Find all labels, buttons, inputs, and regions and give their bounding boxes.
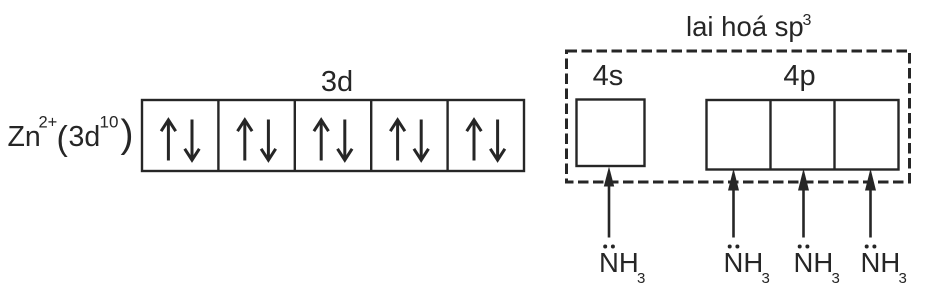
- 4s orbital box: [577, 100, 645, 167]
- svg-text:3d: 3d: [321, 66, 353, 98]
- electron pair box 1: [161, 120, 199, 161]
- svg-text:4p: 4p: [783, 60, 815, 92]
- NH3 ligand 1: [599, 245, 645, 287]
- electron pair box 2: [238, 120, 276, 161]
- donor arrow into 4p box 3: [865, 169, 876, 238]
- svg-text:3: 3: [637, 270, 645, 287]
- svg-text:10: 10: [100, 113, 119, 132]
- svg-text:(: (: [57, 120, 69, 158]
- svg-text:NH: NH: [599, 247, 639, 278]
- 3d orbital box row (5 boxes): [142, 100, 524, 171]
- svg-text:2+: 2+: [39, 114, 58, 132]
- electron pair box 3: [314, 120, 352, 161]
- svg-text:NH: NH: [861, 247, 901, 278]
- svg-text:4s: 4s: [593, 60, 624, 92]
- label lai hoa sp3: [686, 11, 812, 42]
- paired electron arrows in 3d boxes: [161, 120, 505, 161]
- NH3 ligand 3: [794, 245, 840, 287]
- svg-text:NH: NH: [794, 247, 834, 278]
- 4p orbital box row (3 boxes): [707, 100, 899, 170]
- electron pair box 4: [390, 120, 428, 161]
- dashed hybridization box: [567, 51, 910, 182]
- electron pair box 5: [467, 120, 505, 161]
- svg-text:3: 3: [832, 270, 840, 287]
- NH3 ligand 2: [724, 245, 770, 287]
- label Zn2+(3d10): [8, 113, 134, 158]
- svg-text:3: 3: [762, 270, 770, 287]
- svg-text:3d: 3d: [69, 121, 101, 153]
- svg-text:3: 3: [899, 270, 907, 287]
- svg-text:Zn: Zn: [8, 121, 41, 153]
- svg-text:3: 3: [803, 12, 812, 29]
- donor arrow into 4p box 1: [728, 169, 739, 238]
- svg-text:lai hoá sp: lai hoá sp: [686, 11, 804, 42]
- svg-text:): ): [121, 113, 134, 156]
- donor arrow into 4p box 2: [798, 169, 809, 238]
- NH3 ligand 4: [861, 245, 907, 287]
- svg-text:NH: NH: [724, 247, 764, 278]
- donor arrow into 4s: [604, 167, 614, 238]
